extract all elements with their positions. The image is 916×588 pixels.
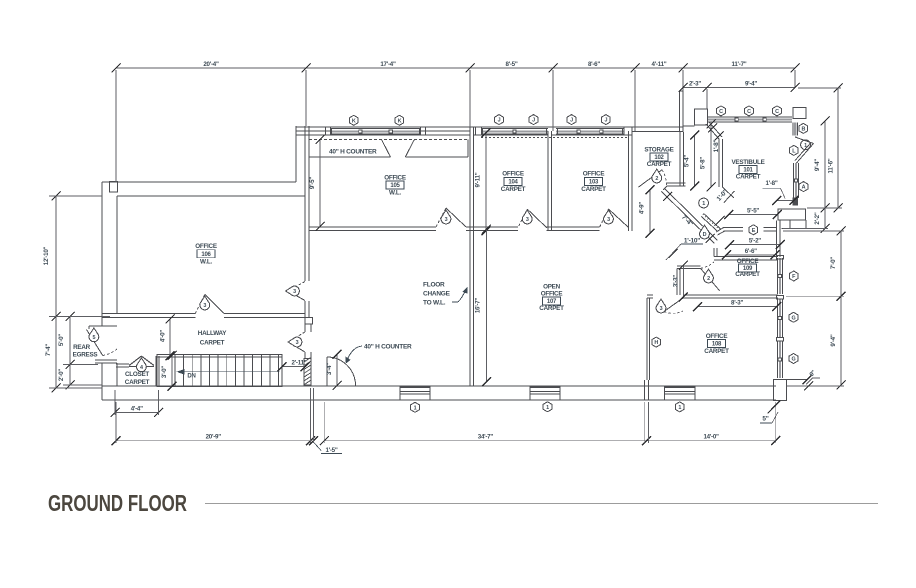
svg-text:1: 1 <box>414 405 417 411</box>
office 109 door leaf <box>700 262 719 291</box>
dim 5in corner <box>760 401 780 424</box>
svg-text:34'-7": 34'-7" <box>478 434 494 441</box>
circle 1 vestibule door tag <box>801 140 811 150</box>
svg-text:GROUND FLOOR: GROUND FLOOR <box>48 490 187 516</box>
dim 1-10 corridor <box>666 237 703 260</box>
svg-text:C: C <box>747 109 751 115</box>
dim 5-2 entry <box>725 238 785 250</box>
svg-text:20'-9": 20'-9" <box>206 434 222 441</box>
label storage 102 <box>644 147 673 169</box>
circle 4 closet door tag <box>137 358 147 372</box>
dim 3-4 gate <box>326 350 342 390</box>
left dim extension lines <box>49 196 110 388</box>
entry stoop lines <box>782 220 806 229</box>
hexagon E door tag <box>749 225 758 235</box>
pentagon 3 corridor door tag <box>288 337 302 347</box>
pentagon 5 rear egress door tag <box>89 328 99 342</box>
svg-text:40" H COUNTER: 40" H COUNTER <box>329 149 377 156</box>
dim 9-4 top <box>703 81 800 93</box>
hexagon C tags <box>717 106 782 116</box>
hexagon B tag <box>799 123 808 133</box>
svg-text:CARPET: CARPET <box>647 161 672 168</box>
dim 3-0 stairs <box>161 351 177 391</box>
svg-text:CARPET: CARPET <box>736 174 761 181</box>
closet east wall <box>156 356 159 386</box>
wall open office/office 108 <box>645 380 649 400</box>
closet north wall <box>116 364 129 367</box>
top dim extension lines <box>116 70 795 182</box>
hexagon G tags <box>789 312 798 363</box>
svg-text:DN: DN <box>187 374 195 380</box>
dim 9-4 office 108 east <box>830 292 846 390</box>
svg-text:CARPET: CARPET <box>125 379 150 386</box>
dim 2-11 stairs <box>278 360 310 372</box>
vestibule west pilaster block <box>695 109 708 125</box>
svg-text:1: 1 <box>678 405 681 411</box>
label 40in H counter 2 <box>346 343 413 363</box>
pentagon 3 office 104 door tag <box>522 210 532 224</box>
window A <box>794 163 799 198</box>
label office 109 <box>735 258 760 278</box>
office 108 door leaf <box>664 298 683 313</box>
dim top 20-4 <box>112 61 311 73</box>
svg-text:8'-5": 8'-5" <box>505 61 517 68</box>
svg-text:3: 3 <box>296 340 299 346</box>
svg-text:OFFICE: OFFICE <box>583 171 605 178</box>
svg-text:40" H COUNTER: 40" H COUNTER <box>364 343 412 350</box>
dim 5-5 entry <box>724 208 781 220</box>
vestibule west wall <box>719 139 722 187</box>
svg-text:3: 3 <box>607 217 610 223</box>
wall office104/103 <box>548 131 552 231</box>
window K band office 105 <box>326 127 426 135</box>
svg-text:OFFICE: OFFICE <box>384 174 406 181</box>
dim 1-8 window A <box>763 180 799 205</box>
svg-text:C: C <box>719 109 723 115</box>
hexagon H wall tag <box>652 337 661 347</box>
svg-text:2'-11": 2'-11" <box>292 360 307 367</box>
door D leaf hatched <box>701 214 720 232</box>
label office 104 <box>501 171 526 193</box>
svg-text:VESTIBULE: VESTIBULE <box>731 159 764 166</box>
svg-text:14'-0": 14'-0" <box>703 434 719 441</box>
svg-text:9'-4": 9'-4" <box>745 81 757 88</box>
svg-text:2'-2": 2'-2" <box>814 212 821 224</box>
staircase <box>157 355 282 387</box>
svg-text:1'-8": 1'-8" <box>765 180 777 187</box>
svg-text:CARPET: CARPET <box>581 186 606 193</box>
dim 2-3 <box>679 81 712 93</box>
svg-text:3: 3 <box>660 306 663 312</box>
svg-text:4'-4": 4'-4" <box>131 406 143 413</box>
dim 4-0 hallway <box>160 315 175 361</box>
dim 7-0 office 109 east <box>830 227 846 301</box>
svg-text:106: 106 <box>201 252 211 258</box>
window F office 109 <box>777 256 784 295</box>
dim left 2-0 <box>58 360 75 390</box>
pentagon 3 office 103 door tag <box>604 210 614 224</box>
dim 4-9 storage <box>639 185 655 238</box>
svg-text:3'-4": 3'-4" <box>326 363 333 375</box>
pentagon 3 office 108 door tag <box>656 299 666 313</box>
svg-text:CARPET: CARPET <box>200 339 225 346</box>
pentagon 3 office 106 door tag <box>286 286 300 296</box>
svg-text:103: 103 <box>589 179 599 185</box>
hallway door V to office 106 <box>195 295 224 314</box>
dim 9-4 vestibule east <box>814 117 830 213</box>
svg-text:7'-0": 7'-0" <box>830 257 837 269</box>
dim 5-8 vestibule west <box>700 120 716 192</box>
title ground floor <box>48 490 187 516</box>
corridor west wall at base <box>305 385 311 386</box>
label office 108 <box>704 333 729 355</box>
extension line x707 <box>706 89 708 109</box>
note floor change <box>423 282 468 307</box>
southeast corner block <box>774 380 787 401</box>
rear egress door leaf <box>87 330 118 356</box>
label open office 107 <box>539 284 564 312</box>
dim 1-5 label <box>314 443 342 455</box>
svg-text:12'-10": 12'-10" <box>43 246 50 265</box>
hallway north wall east segment <box>224 314 305 318</box>
svg-text:A: A <box>802 185 806 191</box>
svg-text:102: 102 <box>654 155 664 161</box>
office 109 west L-wall <box>677 266 700 295</box>
svg-text:OFFICE: OFFICE <box>541 291 563 298</box>
dim 5-4 vestibule west <box>684 131 700 191</box>
dim 7-4 diagonal <box>663 192 715 243</box>
pentagon 2 storage door tag <box>652 169 662 183</box>
label 40in H counter 1 <box>329 149 377 156</box>
dim 1-0 corridor <box>716 188 730 225</box>
svg-text:7'-4": 7'-4" <box>45 344 52 356</box>
svg-text:9'-4": 9'-4" <box>814 159 821 171</box>
svg-text:B: B <box>801 127 805 133</box>
hatched door jamb <box>304 357 311 385</box>
svg-text:D: D <box>703 232 707 238</box>
dim 1-8 vestibule angled <box>708 124 724 153</box>
vestibule window wall C band <box>708 117 792 122</box>
storage door leaf <box>639 170 667 187</box>
corridor west wall mid <box>305 352 311 359</box>
svg-text:OFFICE: OFFICE <box>195 243 217 250</box>
svg-text:HALLWAY: HALLWAY <box>198 330 228 337</box>
office 103 door V <box>600 209 628 227</box>
south window 1 <box>400 386 430 400</box>
label office 103 <box>581 171 606 193</box>
svg-text:108: 108 <box>712 342 722 348</box>
hallway north wall west segment <box>102 314 195 318</box>
svg-text:3: 3 <box>526 217 529 223</box>
svg-text:2'-0": 2'-0" <box>58 369 65 381</box>
closet bifold door <box>129 356 154 367</box>
office 106 east wall lower <box>305 301 309 318</box>
svg-text:105: 105 <box>390 183 400 189</box>
vestibule west angled wall 1-8 <box>706 122 722 139</box>
hexagon 1 window tag a <box>411 402 420 412</box>
window J band office 103 <box>481 127 632 138</box>
office 106 door V <box>288 282 305 301</box>
svg-text:1'-5": 1'-5" <box>325 447 337 454</box>
svg-text:11'-7": 11'-7" <box>732 61 747 68</box>
window J band office 104 <box>476 127 549 135</box>
svg-text:4: 4 <box>140 365 143 371</box>
svg-text:TO W.L.: TO W.L. <box>423 300 446 307</box>
svg-text:5: 5 <box>93 335 96 341</box>
svg-text:2: 2 <box>707 276 710 282</box>
dim 11-6 east <box>828 84 843 213</box>
top exterior wall over offices and storage <box>296 127 683 135</box>
svg-text:FLOOR: FLOOR <box>423 282 445 289</box>
dim 8-3 office 108 <box>693 300 781 312</box>
svg-text:REAR: REAR <box>73 344 91 351</box>
dim 3-3 office 109 <box>673 261 688 302</box>
svg-text:1'-10": 1'-10" <box>684 237 700 244</box>
pentagon 3 hallway door tag <box>200 296 210 310</box>
office 108/109 wall segment b <box>683 295 778 298</box>
bottom dim extension lines <box>116 388 776 443</box>
svg-text:H: H <box>654 340 658 346</box>
svg-text:2'-3": 2'-3" <box>689 81 701 88</box>
dim 9-5 office 105 <box>309 135 325 231</box>
dim bottom 34-7 <box>309 434 651 446</box>
dim 6-6 office 109 <box>722 248 779 259</box>
vestibule entry door dashed swing <box>796 137 806 142</box>
svg-text:CARPET: CARPET <box>735 271 760 278</box>
label vestibule 101 <box>731 159 764 181</box>
hexagon A tag <box>799 182 808 192</box>
hexagon F tag <box>789 271 798 281</box>
dim top 11-7 <box>679 61 800 73</box>
east dim extension lines <box>783 88 842 229</box>
wall below window A <box>793 198 798 205</box>
svg-text:4'-0": 4'-0" <box>160 330 167 342</box>
entry landing step <box>778 209 806 220</box>
label office 106 <box>195 243 217 266</box>
vestibule east pilaster block <box>793 108 806 119</box>
label rear egress <box>73 344 98 359</box>
svg-text:G: G <box>792 315 796 321</box>
svg-text:J: J <box>498 118 501 124</box>
svg-text:K: K <box>352 118 356 124</box>
offices south wall segment a <box>309 227 436 231</box>
svg-text:9'-4": 9'-4" <box>830 334 837 346</box>
entry wall stub north of storage <box>680 91 684 132</box>
wall below rear egress <box>95 360 117 363</box>
svg-text:3'-0": 3'-0" <box>161 366 168 378</box>
diagonal corridor wall <box>662 187 718 244</box>
svg-text:9'-11": 9'-11" <box>475 172 482 187</box>
svg-text:J: J <box>532 118 535 124</box>
exterior wall jog at x=296 <box>295 126 297 182</box>
corridor west wall upper <box>305 324 311 332</box>
office 104 door V <box>519 209 547 228</box>
svg-text:3'-3": 3'-3" <box>673 275 680 287</box>
label office 105 <box>384 174 406 196</box>
office 108/109 wall segment a <box>647 295 653 298</box>
window G office 108 upper <box>777 296 784 338</box>
svg-text:8'-6": 8'-6" <box>588 61 600 68</box>
svg-text:1: 1 <box>702 201 705 207</box>
southeast stoop lines <box>786 375 811 384</box>
svg-text:CLOSET: CLOSET <box>125 371 149 378</box>
vestibule angled east wall <box>795 137 814 163</box>
window G office 108 lower <box>777 337 784 378</box>
svg-text:J: J <box>605 118 608 124</box>
dim top 8-6 <box>549 61 640 73</box>
dim 4-4 closet <box>111 390 164 417</box>
hexagon 1 window tag b <box>543 402 552 412</box>
south window 3 <box>664 386 695 400</box>
svg-text:K: K <box>398 118 402 124</box>
svg-text:CARPET: CARPET <box>539 305 564 312</box>
dim bottom 20-9 <box>112 434 316 446</box>
svg-text:5'-2": 5'-2" <box>749 238 761 245</box>
svg-text:J: J <box>570 118 573 124</box>
svg-text:CHANGE: CHANGE <box>423 291 451 298</box>
hexagon J tags <box>495 115 611 125</box>
storage east wall <box>680 132 683 186</box>
label hallway <box>198 330 228 346</box>
dim left 5-0 <box>58 312 75 369</box>
south window 2 <box>530 386 560 400</box>
offices south wall segment b <box>466 227 518 231</box>
window B <box>793 123 798 136</box>
label closet <box>125 371 150 386</box>
svg-text:5": 5" <box>762 416 768 423</box>
dim 16-7 open office <box>475 225 491 387</box>
south exterior wall <box>102 363 776 400</box>
counter 40in office 105 <box>309 140 468 158</box>
svg-text:W.L.: W.L. <box>200 259 212 266</box>
building top-left exterior wall (Office 106 north wall) <box>102 182 305 327</box>
east dim extension lines 2 <box>783 231 844 386</box>
svg-text:1'-8": 1'-8" <box>713 139 720 152</box>
circle 1 corridor tag <box>699 198 709 208</box>
dim left 12-10 <box>43 192 61 322</box>
svg-text:EGRESS: EGRESS <box>73 352 98 359</box>
svg-text:OFFICE: OFFICE <box>706 333 728 340</box>
svg-text:20'-4": 20'-4" <box>203 61 219 68</box>
svg-text:1: 1 <box>546 405 549 411</box>
svg-text:OFFICE: OFFICE <box>502 171 524 178</box>
corridor door V <box>288 332 305 352</box>
office 109 north wall <box>714 248 778 260</box>
dim left 7-4 <box>45 312 61 393</box>
svg-text:104: 104 <box>508 179 518 185</box>
hexagon K tags <box>349 115 403 125</box>
svg-text:5'-5": 5'-5" <box>747 208 759 215</box>
dim 2-2 east <box>814 204 830 234</box>
svg-text:5'-8": 5'-8" <box>700 157 707 169</box>
pentagon 2 office 109 door tag <box>704 269 714 283</box>
svg-text:C: C <box>775 109 779 115</box>
dim bottom 14-0 <box>642 434 780 446</box>
dim 9in stoop <box>804 369 820 390</box>
office 106 east wall upper <box>305 126 309 281</box>
counter gate door arc <box>327 357 356 386</box>
svg-text:9'-5": 9'-5" <box>309 177 316 189</box>
wall link to vestibule block <box>683 125 695 127</box>
svg-text:5'-0": 5'-0" <box>58 334 65 346</box>
pentagon D door tag <box>700 225 710 239</box>
svg-text:4'-11": 4'-11" <box>652 61 667 68</box>
vestibule west wall end cap <box>722 187 734 203</box>
dim top 17-4 <box>302 61 475 73</box>
pentagon 3 office 105 door tag <box>441 210 451 224</box>
rear egress wall jog <box>89 326 117 329</box>
dim top 8-5 <box>466 61 558 73</box>
title rule line <box>205 503 878 505</box>
stair DN arrow <box>177 369 280 380</box>
svg-text:17'-4": 17'-4" <box>380 61 396 68</box>
storage south wall <box>667 183 686 186</box>
svg-text:CARPET: CARPET <box>501 186 526 193</box>
svg-text:W.L.: W.L. <box>389 190 401 197</box>
svg-text:8'-3": 8'-3" <box>731 300 743 307</box>
wall office103/storage <box>629 131 633 231</box>
svg-text:CARPET: CARPET <box>704 348 729 355</box>
hexagon 1 window tag c <box>675 402 684 412</box>
svg-text:6'-6": 6'-6" <box>745 248 757 255</box>
svg-text:3: 3 <box>203 303 206 309</box>
hexagon L tag <box>790 145 799 155</box>
svg-text:3: 3 <box>293 289 296 295</box>
svg-text:16'-7": 16'-7" <box>475 298 482 314</box>
svg-text:2: 2 <box>655 176 658 182</box>
svg-text:11'-6": 11'-6" <box>828 158 835 173</box>
svg-text:5'-4": 5'-4" <box>684 155 691 167</box>
office 105 door V <box>436 208 466 227</box>
dim 9-11 office 104 <box>475 128 491 235</box>
office 108 west wall <box>647 298 650 380</box>
east entry wall with door E <box>716 228 777 235</box>
svg-text:4'-9": 4'-9" <box>639 202 646 214</box>
offices south wall segment c <box>547 227 600 231</box>
east wall between entry and office 109 window <box>777 221 780 258</box>
svg-text:3: 3 <box>445 217 448 223</box>
dim top 4-11 <box>631 61 688 73</box>
wall office105/104 and open office west wall <box>470 127 474 386</box>
wall block below hallway wall <box>305 318 312 325</box>
svg-text:G: G <box>792 357 796 363</box>
